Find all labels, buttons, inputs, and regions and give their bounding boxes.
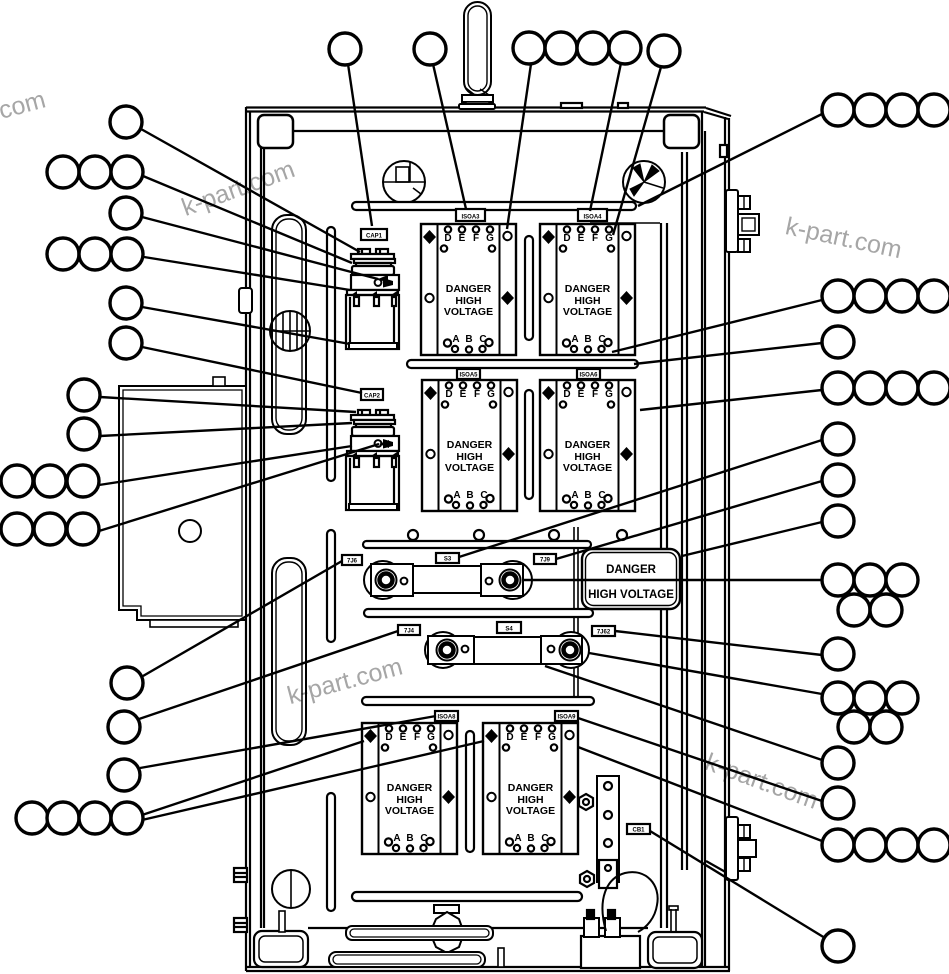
module ISOA6: [540, 380, 635, 511]
bar above bottom modules: [362, 697, 594, 705]
bottom-right corner foot: [648, 932, 702, 968]
hex nut lower: [580, 871, 594, 887]
leader shelf bar to balloons: [638, 114, 822, 206]
label S4: [497, 622, 521, 633]
leader balloons to ISOA8 diamond: [142, 741, 364, 815]
balloon right r6: [822, 464, 854, 496]
balloons left l10: [1, 513, 99, 545]
leader ISOA9 label to balloon: [578, 718, 822, 801]
module ISOA9: [483, 723, 578, 854]
leader module ISOA6 to balloons: [640, 390, 822, 410]
balloons left l4: [47, 238, 143, 270]
battery cable clamp assembly: [581, 910, 640, 968]
balloons right r13: [822, 829, 949, 861]
top shelf bar: [352, 202, 636, 210]
balloon left l12: [108, 711, 140, 743]
arrowhead at cap2: [379, 440, 389, 448]
svg-text:ISOA6: ISOA6: [579, 373, 598, 379]
bottom thin bar: [352, 892, 582, 901]
bottom frame lines: [246, 928, 730, 971]
bottom cross member: [346, 926, 493, 940]
bus bar contactor S3: [364, 561, 532, 599]
leader to ISOA3: [433, 64, 466, 209]
bar above bus bar S3: [363, 541, 591, 548]
panel hole: [179, 520, 201, 542]
bottom-left corner foot: [254, 931, 308, 967]
module ISOA8: [362, 723, 457, 854]
label 7J6: [342, 555, 362, 565]
balloon right r7: [822, 505, 854, 537]
leader balloon to cap1 terminal: [141, 129, 360, 252]
balloon right r14: [822, 930, 854, 962]
balloon left l13: [108, 759, 140, 791]
balloons left l9: [1, 465, 99, 497]
label ISOA3: [456, 209, 485, 221]
balloons right r10: [822, 682, 918, 743]
module ISOA3: [421, 224, 516, 355]
balloon right r11: [822, 747, 854, 779]
svg-text:CAP2: CAP2: [364, 394, 381, 400]
leader balloon to cap1 body: [142, 217, 378, 279]
bar below ISOA3 ISOA4: [407, 360, 638, 368]
label ISOA5: [457, 369, 480, 379]
balloons top row: [329, 32, 680, 67]
svg-text:CB1: CB1: [632, 828, 645, 834]
wall tab left: [239, 288, 252, 313]
lifting handle: [459, 2, 495, 109]
hex nut upper: [579, 794, 593, 810]
svg-text:S4: S4: [505, 627, 513, 633]
label ISOA8: [435, 711, 458, 721]
slat between ISOA3 ISOA4: [525, 236, 533, 340]
arrowhead at cap1: [378, 275, 388, 283]
cable loop wire: [602, 872, 657, 932]
danger high voltage sign: [582, 549, 680, 609]
left vent louver: [270, 311, 310, 351]
leader balloons to ISOA9 diamond: [142, 741, 484, 820]
right wall connector upper: [726, 190, 759, 252]
leader module ISOA9 to balloons: [578, 747, 822, 841]
balloon left l6: [110, 327, 142, 359]
leader balloons to cap2 body: [99, 446, 352, 485]
label 7J9: [534, 554, 556, 564]
balloon left l7: [68, 379, 100, 411]
leader balloon to 7J4: [139, 631, 398, 719]
label ISOA4: [578, 209, 607, 221]
balloons right r1: [822, 94, 949, 126]
leader bar end to balloon: [634, 343, 822, 364]
label CAP2: [361, 389, 383, 400]
top-right corner bracket: [664, 115, 699, 148]
capacitor CAP2: [346, 410, 399, 510]
slat between ISOA5 ISOA6: [525, 390, 533, 499]
right wall connector lower: [726, 817, 756, 880]
leader balloon to cap1 bracket: [142, 307, 350, 344]
svg-text:ISOA8: ISOA8: [437, 715, 456, 721]
label 7J4: [398, 625, 420, 635]
left mounting panel: [119, 377, 246, 627]
balloon left l1: [110, 106, 142, 138]
leader balloon to CAP2 label: [142, 347, 362, 393]
balloon right r3: [822, 326, 854, 358]
svg-text:CAP1: CAP1: [366, 234, 383, 240]
label ISOA6: [577, 369, 600, 379]
leader balloon to cap2 terminal: [100, 397, 356, 412]
bottom-left hole with bolt: [272, 870, 310, 932]
leader S3 to balloon: [459, 440, 822, 557]
slat between bottom modules: [466, 731, 474, 852]
bottom lower cross member: [329, 948, 504, 967]
balloons right r8: [822, 564, 918, 626]
leader 7J62 to balloon: [615, 631, 822, 655]
balloon right r9: [822, 638, 854, 670]
enclosure left wall: [246, 107, 264, 971]
label CAP1: [361, 229, 387, 240]
label 7J62: [592, 626, 615, 636]
terminal strip TB1: [597, 776, 619, 882]
leader balloon to 7J6: [143, 561, 342, 676]
leader to module ISOA4: [613, 67, 661, 235]
bar between bus bars: [364, 609, 593, 617]
svg-text:ISOA3: ISOA3: [461, 215, 480, 221]
cable end pegs: [669, 906, 678, 931]
svg-text:7J4: 7J4: [404, 629, 415, 635]
cable duct upper-left: [272, 215, 306, 434]
balloon left l5: [110, 287, 142, 319]
back panel top edge: [590, 222, 660, 224]
enclosure right wall: [661, 111, 729, 971]
balloon right r5: [822, 423, 854, 455]
label ISOA9: [555, 711, 578, 721]
balloons left l2: [47, 156, 143, 188]
balloon left l3: [110, 197, 142, 229]
leader to module ISOA3 strip: [507, 64, 531, 229]
leader sign to balloon: [682, 522, 822, 556]
cable duct lower-left: [272, 558, 306, 745]
leader balloon to cap2 plate: [100, 423, 352, 436]
svg-text:ISOA9: ISOA9: [557, 715, 576, 721]
svg-text:7J62: 7J62: [597, 630, 611, 636]
slat mid-left: [327, 530, 335, 642]
leader CB1 to balloon: [650, 831, 825, 938]
leader balloon to ISOA8 label: [140, 716, 436, 768]
slat lower-left: [327, 793, 335, 911]
bottom center drain fitting: [430, 905, 464, 953]
bus bar contactor S4: [425, 632, 589, 668]
balloon right r12: [822, 787, 854, 819]
capacitor CAP1: [346, 249, 399, 349]
leader module ISOA4 bottom to balloons: [612, 300, 822, 352]
svg-text:7J9: 7J9: [540, 558, 551, 564]
leader to ISOA4: [590, 63, 621, 211]
module ISOA5: [422, 380, 517, 511]
balloons right r4: [822, 372, 949, 404]
leader balloons to cap1 base: [144, 257, 350, 290]
balloons left l14: [16, 802, 143, 834]
svg-text:HIGH VOLTAGE: HIGH VOLTAGE: [588, 589, 674, 601]
svg-text:ISOA5: ISOA5: [459, 373, 478, 379]
left wall bolt lower: [234, 918, 247, 932]
svg-text:S3: S3: [444, 557, 452, 563]
svg-text:7J6: 7J6: [347, 559, 358, 565]
top-left corner bracket: [258, 115, 293, 148]
small plate with hole: [599, 860, 617, 888]
top-right vent: [623, 161, 665, 203]
label CB1: [627, 824, 650, 834]
top-left vent: [383, 161, 425, 203]
svg-text:DANGER: DANGER: [606, 564, 657, 576]
rail right of bus bars: [573, 527, 575, 705]
left wall bolt upper: [234, 868, 247, 882]
enclosure top rail: [246, 103, 731, 131]
svg-text:ISOA4: ISOA4: [583, 215, 602, 221]
balloon left l11: [111, 667, 143, 699]
balloons right r2: [822, 280, 949, 312]
leader balloons to cap1 plate: [143, 176, 352, 263]
screw holes row above bus bar: [408, 530, 418, 540]
label S3: [436, 553, 459, 563]
leader bus bar S3 to balloons: [523, 579, 822, 581]
module ISOA4: [540, 224, 635, 355]
leader balloons to cap2 arrow: [99, 444, 379, 531]
balloon left l8: [68, 418, 100, 450]
leader bus bar S4 to balloons: [589, 653, 822, 694]
leader bus block corner to balloon: [545, 666, 822, 760]
leader 7J9 to balloon: [556, 481, 822, 559]
leader to CAP1: [348, 64, 372, 226]
slat between wall and modules: [327, 227, 335, 481]
